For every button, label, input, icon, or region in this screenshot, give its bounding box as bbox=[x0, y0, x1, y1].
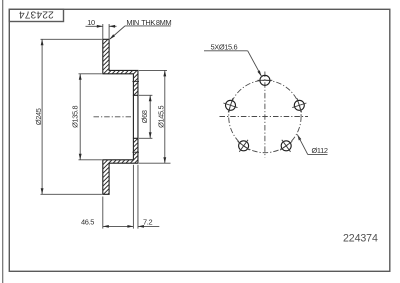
pitch circle Ø112 bbox=[229, 80, 301, 152]
svg-text:224374: 224374 bbox=[343, 233, 378, 245]
horizontal centerline left view bbox=[94, 116, 132, 118]
horizontal centerline bbox=[220, 116, 309, 118]
svg-text:10: 10 bbox=[87, 18, 95, 27]
svg-text:Ø68: Ø68 bbox=[140, 110, 149, 123]
bolt hole lower-left (234°) bbox=[238, 140, 250, 152]
bolt hole top (90°) bbox=[258, 75, 273, 85]
hub bore edges (center, no hatch) bbox=[133, 95, 138, 138]
leader Ø112 bbox=[297, 134, 328, 155]
bolt hole upper-right (18°) bbox=[292, 98, 306, 112]
dimension Ø135.8 bbox=[70, 74, 102, 160]
svg-text:Ø135.8: Ø135.8 bbox=[70, 105, 79, 127]
svg-text:5XØ15.6: 5XØ15.6 bbox=[211, 42, 238, 51]
bolt hole tick bottom flange bbox=[132, 151, 139, 153]
bolt hole tick top flange bbox=[132, 80, 139, 82]
vertical centerline bbox=[264, 72, 266, 158]
title box top-left bbox=[9, 9, 63, 21]
leader 5XØ15.6 bbox=[204, 42, 262, 77]
dimension 46.5 bbox=[81, 165, 133, 229]
dimension Ø68 bbox=[139, 95, 153, 138]
leader MIN THK 8MM bbox=[110, 18, 172, 39]
svg-text:46.5: 46.5 bbox=[81, 217, 94, 226]
section top half (friction ring + hat web + flange) hatched bbox=[95, 0, 145, 246]
bolt hole upper-left (162°) bbox=[223, 98, 237, 112]
svg-text:Ø145.5: Ø145.5 bbox=[156, 105, 165, 127]
svg-text:Ø112: Ø112 bbox=[312, 146, 328, 155]
bolt hole lower-right (306°) bbox=[280, 140, 292, 152]
dimension 7.2 bbox=[138, 165, 159, 229]
dimension Ø145.5 bbox=[139, 70, 171, 163]
svg-text:Ø245: Ø245 bbox=[34, 108, 43, 125]
page left edge line bbox=[2, 0, 4, 283]
section bottom half hatched bbox=[95, 0, 145, 246]
dimension Ø245 bbox=[34, 39, 102, 194]
svg-text:224374: 224374 bbox=[19, 9, 54, 20]
dimension 10 (disc thickness) bbox=[86, 18, 117, 39]
svg-text:7.2: 7.2 bbox=[143, 217, 152, 226]
